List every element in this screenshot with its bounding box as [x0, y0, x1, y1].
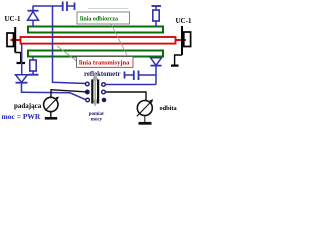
pickup strip: linia odbiorcza (top green strip)	[28, 27, 163, 33]
svg-text:linia odbiorcza: linia odbiorcza	[80, 17, 118, 23]
svg-text:mocy: mocy	[91, 117, 103, 122]
svg-text:padająca: padająca	[14, 102, 42, 110]
switch S1 contacts	[86, 82, 106, 102]
svg-text:UC-1: UC-1	[5, 15, 21, 23]
meter M1 (pomiar mocy padajacej)	[44, 97, 59, 118]
wire: right connector shell lead	[175, 55, 182, 65]
wire: meter M1 to switch middle-left contact	[51, 90, 85, 97]
switch S1 shorting bars	[91, 80, 93, 104]
switch S1 travel arrow (gray)	[93, 75, 98, 106]
ground bar (left connector)	[17, 62, 26, 64]
resistor R1 (top right)	[153, 6, 159, 27]
capacitor C1	[63, 2, 75, 12]
wire: D2 to switch top-right contact	[105, 84, 156, 86]
callout line from transmisyjna box to red strip	[57, 46, 78, 62]
transmission line strip (red)	[21, 37, 176, 44]
diode D1 (top left)	[28, 6, 39, 28]
ground bar (R1 top)	[152, 5, 162, 7]
ground bar (meter M1)	[45, 117, 57, 120]
red output stub (right)	[176, 39, 186, 41]
capacitor C2	[125, 71, 157, 81]
pickup strip: bottom green strip	[28, 51, 163, 57]
label box: linia transmisyjna	[77, 57, 134, 68]
wire: red strip corner down to D3	[21, 45, 23, 75]
faint artifact line	[88, 8, 128, 10]
svg-text:UC-1: UC-1	[176, 17, 192, 25]
wire: left connector shell lead	[15, 53, 21, 63]
ground bar (R2 bottom)	[28, 74, 39, 76]
svg-text:pomiar: pomiar	[89, 112, 105, 117]
callout line from odbiorcza box to transmisyjna box	[111, 24, 128, 57]
connector UC-1 right	[182, 26, 191, 55]
resistor R2 (bottom left)	[30, 57, 36, 75]
label box: linia odbiorcza	[77, 12, 130, 24]
wire: switch middle-right contact to meter M2	[105, 92, 146, 101]
svg-text:odbita: odbita	[160, 105, 178, 112]
ground bar (right connector)	[171, 64, 179, 66]
connector UC-1 left	[7, 27, 15, 53]
wire: D3 to switch bottom-left contact	[22, 92, 87, 100]
red input stub with arrowhead (left)	[13, 39, 21, 41]
wire: probe line from C1 junction down to switch top-left contact	[53, 6, 87, 84]
meter M2 (pomiar mocy odbitej)	[137, 99, 153, 122]
svg-text:moc = PWR: moc = PWR	[2, 112, 41, 121]
svg-text:reflektometr: reflektometr	[84, 71, 120, 78]
diode D2 (bottom right)	[151, 57, 162, 85]
ground bar (meter M2)	[139, 122, 152, 125]
svg-text:linia transmisyjna: linia transmisyjna	[79, 60, 130, 67]
wire: D1 to C1 junction	[33, 5, 62, 7]
diode D3 (bottom left)	[16, 75, 28, 92]
